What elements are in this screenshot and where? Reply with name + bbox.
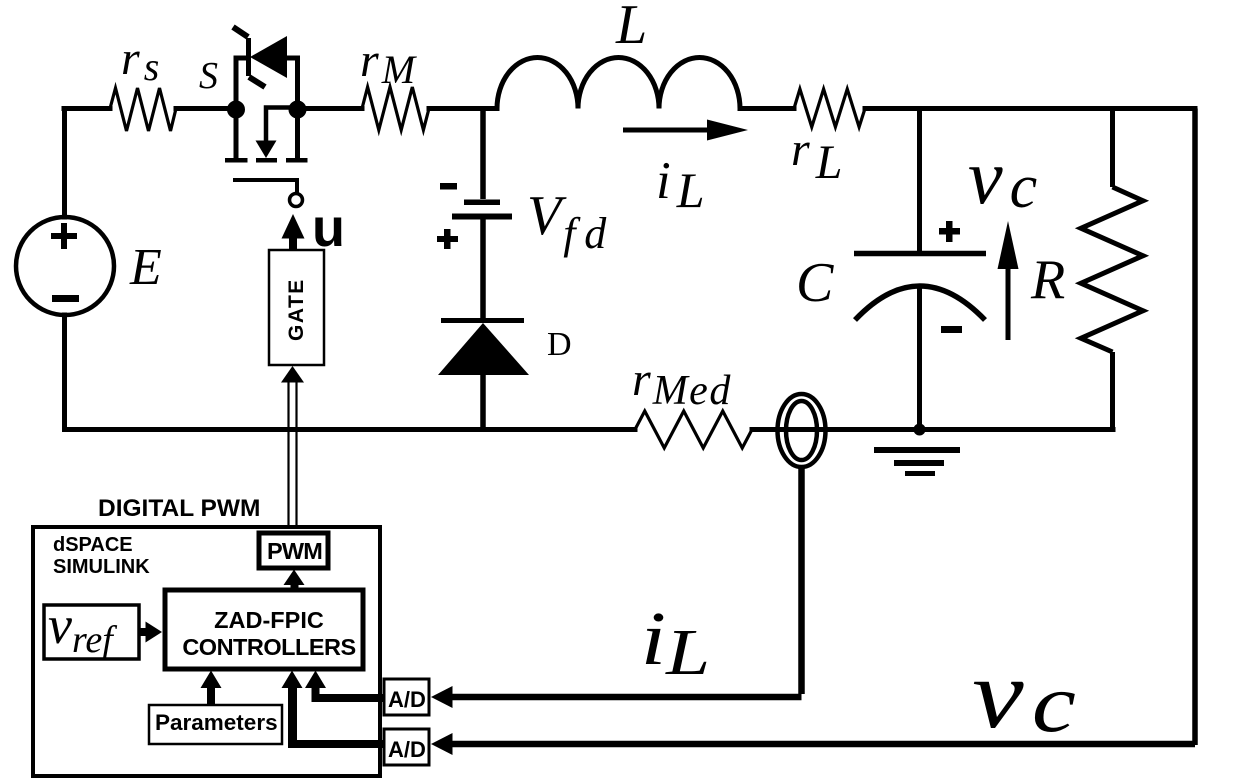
svg-text:A/D: A/D	[388, 737, 426, 762]
gate terminal circle	[290, 194, 303, 207]
arrow ZAD to PWM	[284, 570, 305, 591]
MOSFET substrate arrow	[266, 108, 298, 144]
wire inductor to r_L	[740, 106, 794, 111]
wire r_s to node S	[176, 106, 236, 111]
wire right vertical (v_c sense)	[1192, 109, 1198, 746]
node dot MOSFET drain side	[289, 101, 307, 119]
wire battery to diode	[480, 219, 486, 320]
resistor R	[1030, 109, 1143, 430]
svg-text:Parameters: Parameters	[155, 710, 278, 735]
wire V_fd branch vertical	[480, 109, 486, 200]
gate drive arrow u	[282, 198, 346, 258]
svg-text:GATE: GATE	[285, 278, 308, 341]
svg-text:A/D: A/D	[388, 687, 426, 712]
node S junction dot	[227, 101, 245, 119]
wire below source E down to bottom rail	[62, 315, 67, 430]
inductor L	[497, 58, 740, 109]
svg-text:dSPACE: dSPACE	[53, 534, 133, 556]
arrow v_ref to ZAD	[139, 622, 162, 643]
diode D	[438, 321, 572, 430]
transistor S (MOSFET switch with body diode)	[225, 27, 308, 207]
voltage arrow v_c	[968, 133, 1037, 340]
capacitor C branch	[854, 109, 986, 430]
current sensor (transducer loop)	[778, 394, 826, 467]
svg-text:iL: iL	[656, 152, 705, 218]
current arrow i_L (top)	[623, 120, 748, 219]
svg-text:D: D	[547, 326, 572, 363]
arrow Parameters to ZAD	[201, 671, 222, 706]
wire r_M to V_fd branch node	[429, 106, 497, 111]
ZAD-FPIC CONTROLLERS box	[165, 590, 363, 669]
battery V_fd	[437, 183, 607, 258]
voltage source E	[16, 217, 162, 315]
PWM box	[259, 533, 328, 568]
svg-text:SIMULINK: SIMULINK	[53, 556, 150, 578]
svg-text:E: E	[129, 239, 162, 296]
svg-text:C: C	[796, 252, 834, 314]
wire top-left segment	[64, 106, 110, 111]
A/D box 2	[384, 729, 429, 765]
v_ref box	[44, 595, 139, 661]
wire bottom rail sensor to R branch	[824, 427, 1113, 432]
Parameters box	[149, 705, 282, 744]
double-line arrow PWM to GATE	[281, 366, 304, 527]
A/D box 1	[384, 679, 429, 715]
wire MOSFET right node to r_M	[298, 106, 363, 111]
resistor r_L	[794, 89, 865, 127]
svg-text:L: L	[615, 0, 647, 56]
resistor r_s	[110, 88, 176, 131]
wire v_c sense to A/D2	[431, 733, 1195, 755]
svg-text:DIGITAL PWM: DIGITAL PWM	[98, 495, 260, 522]
resistor r_M	[362, 87, 429, 130]
body diode of S	[246, 38, 251, 76]
svg-text:PWM: PWM	[267, 538, 322, 564]
svg-text:CONTROLLERS: CONTROLLERS	[182, 634, 355, 660]
svg-text:S: S	[199, 55, 218, 97]
dSPACE outer box	[33, 527, 380, 776]
MOSFET gate bar	[233, 180, 297, 193]
wire i_L sense from sensor to A/D1	[431, 467, 802, 708]
ground junction dot	[914, 424, 926, 436]
GATE driver box	[269, 250, 324, 365]
svg-text:R: R	[1030, 249, 1065, 311]
resistor r_Med	[635, 411, 752, 448]
wire bottom rail left (to r_Med)	[65, 427, 636, 432]
wire sensor left stub	[752, 427, 779, 432]
svg-text:ZAD-FPIC: ZAD-FPIC	[214, 607, 324, 633]
wire left vertical to source E	[62, 109, 67, 218]
MOSFET channel bars	[225, 158, 248, 163]
arrow A/D2 to ZAD	[282, 671, 385, 749]
ground symbol	[874, 447, 960, 476]
wire r_L to top-right corner	[865, 106, 1195, 111]
arrow A/D1 to ZAD	[305, 671, 385, 703]
wire bottom rail over gate shaft (redraw)	[270, 427, 320, 432]
